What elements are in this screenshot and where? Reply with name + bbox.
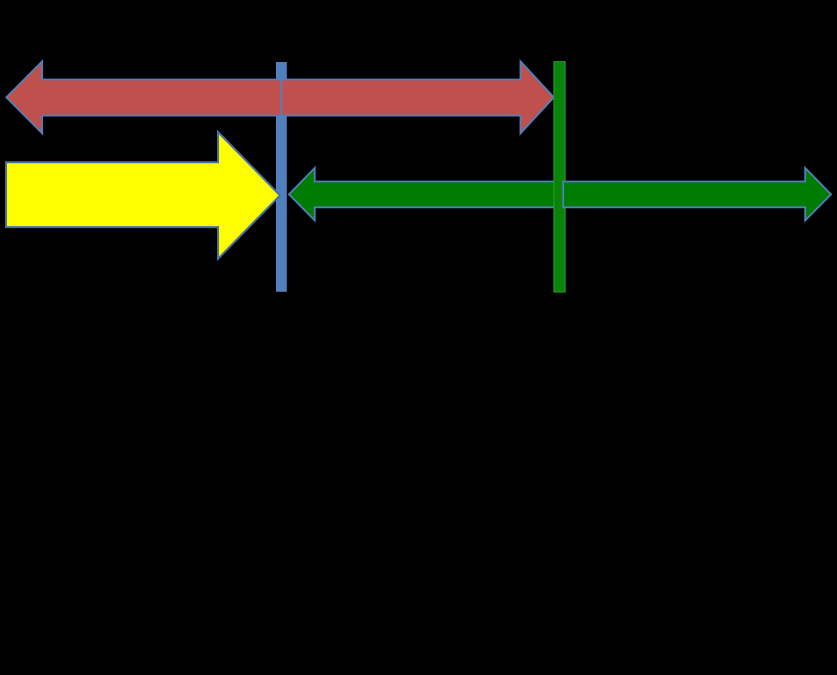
- green arrow left half (points left, tail at green line): [289, 168, 564, 220]
- green arrow right half (points right, tail at green line): [563, 168, 831, 220]
- red arrow left half (points left, tail at blue line): [6, 61, 281, 133]
- red arrow right half (points right, tail at blue line): [282, 61, 554, 133]
- blue marker line (vertical bar): [276, 62, 287, 292]
- green marker line (vertical bar): [554, 62, 565, 292]
- yellow block arrow (points right at blue line): [6, 132, 280, 259]
